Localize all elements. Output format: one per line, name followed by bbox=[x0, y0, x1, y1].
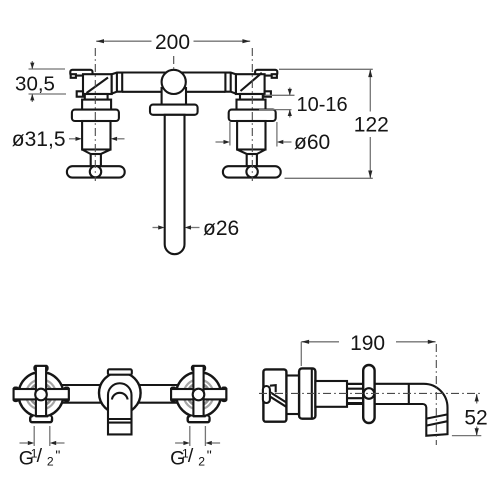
spout flange bbox=[150, 105, 198, 115]
centerline spout bbox=[173, 56, 175, 71]
plan left handle bbox=[14, 366, 69, 422]
side spout joint line bbox=[408, 384, 410, 404]
dimension ø26 bbox=[153, 217, 240, 240]
svg-text:10-16: 10-16 bbox=[297, 94, 348, 116]
side cross-handle bar bbox=[363, 365, 374, 423]
dimension G1/2 right bbox=[170, 426, 220, 470]
centerline left handle bbox=[94, 48, 96, 181]
dimension 122 bbox=[279, 69, 389, 178]
svg-text:30,5: 30,5 bbox=[15, 73, 55, 96]
wire: supply pipe left segment bbox=[122, 73, 167, 92]
dimension 200 bbox=[96, 31, 250, 54]
side valve body bbox=[315, 381, 347, 407]
side vertical outlet centerline bbox=[435, 344, 437, 445]
side escutcheon bbox=[299, 368, 315, 418]
svg-text:190: 190 bbox=[350, 332, 385, 355]
svg-text:ø60: ø60 bbox=[294, 131, 330, 154]
dimension 10-16 bbox=[259, 88, 348, 118]
svg-text:": " bbox=[207, 447, 212, 463]
side spout aerator lines bbox=[426, 414, 447, 418]
wire: plan pipe top edge bbox=[58, 384, 182, 386]
svg-text:/: / bbox=[188, 445, 194, 467]
ball joint bbox=[162, 70, 186, 94]
svg-text:200: 200 bbox=[155, 31, 190, 54]
svg-text:": " bbox=[55, 447, 60, 463]
svg-text:52: 52 bbox=[464, 406, 487, 429]
wire: supply pipe right segment bbox=[181, 73, 226, 92]
svg-text:ø26: ø26 bbox=[203, 217, 239, 240]
side spout tube bbox=[340, 384, 448, 436]
plan spout (pointing to viewer) bbox=[108, 383, 132, 434]
side escutcheon rim line bbox=[311, 370, 313, 418]
dimension ø60 bbox=[216, 122, 331, 154]
plan right handle bbox=[171, 366, 226, 422]
dimension G1/2 left bbox=[19, 426, 65, 470]
right elbow chamfer bbox=[241, 73, 262, 91]
side stem shoulder lines bbox=[347, 384, 364, 403]
left handle unit bbox=[67, 70, 125, 178]
side wall connector bbox=[286, 376, 302, 415]
centerline right handle bbox=[251, 48, 253, 181]
dimension 30,5 bbox=[15, 61, 66, 102]
svg-text:2: 2 bbox=[47, 454, 54, 468]
svg-text:ø31,5: ø31,5 bbox=[12, 128, 66, 151]
plan spout inner bend arc bbox=[112, 393, 128, 400]
wire: plan pipe bottom edge bbox=[58, 402, 182, 404]
dimension 52 bbox=[452, 394, 488, 436]
plan body top tab bbox=[108, 369, 132, 374]
dimension ø31,5 bbox=[12, 128, 125, 151]
spout neck bbox=[162, 88, 186, 105]
svg-text:2: 2 bbox=[198, 454, 205, 468]
left elbow chamfer bbox=[87, 78, 109, 94]
side wall body block bbox=[263, 369, 286, 421]
svg-text:122: 122 bbox=[354, 114, 389, 137]
plan spout aerator lines bbox=[108, 418, 131, 420]
spout tube bbox=[165, 115, 185, 254]
right handle unit (mirrored) bbox=[223, 70, 281, 178]
side horizontal axis centerline bbox=[259, 392, 481, 394]
svg-text:/: / bbox=[37, 445, 43, 467]
dimension 190 bbox=[301, 332, 435, 366]
plan body circle bbox=[99, 372, 141, 414]
side handle hub circle bbox=[364, 388, 375, 399]
side inner supply elbow bbox=[263, 385, 287, 407]
